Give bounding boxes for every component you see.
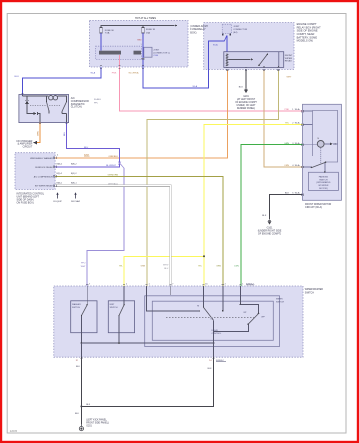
svg-text:JOINT: JOINT	[153, 50, 160, 52]
pin marks multifunction box top	[86, 284, 88, 286]
wire ORN relay to control unit row A	[55, 69, 227, 157]
if-equipped arrows	[56, 192, 76, 198]
svg-text:UNDER, ON LEFT: UNDER, ON LEFT	[236, 105, 256, 107]
fuse box feed line	[101, 25, 175, 27]
ground symbol G101	[268, 221, 271, 224]
svg-text:SWITCH: SWITCH	[110, 307, 118, 309]
mist switch sub-box	[108, 301, 134, 333]
arrow to CD changer circuit	[33, 141, 37, 144]
svg-text:GRN/ORN: GRN/ORN	[108, 175, 119, 177]
svg-text:B(5)-2: B(5)-2	[57, 173, 63, 175]
svg-text:FENDER PANEL): FENDER PANEL)	[237, 107, 255, 110]
wiper switch wiring	[147, 286, 200, 311]
svg-text:7.5A: 7.5A	[105, 32, 110, 35]
svg-text:SWITCH: SWITCH	[305, 292, 314, 294]
relay arrow line	[229, 58, 251, 60]
washer switch sub-box	[71, 301, 97, 333]
svg-text:90-BLU: 90-BLU	[94, 99, 102, 101]
fuse F1	[100, 26, 102, 28]
wire BLK wiper motor to ground G101	[270, 195, 303, 220]
svg-text:BLU: BLU	[84, 147, 89, 149]
svg-text:WHT/BLU: WHT/BLU	[108, 184, 118, 186]
svg-text:B(8)-2: B(8)-2	[57, 164, 63, 166]
svg-text:W/O NAVI: W/O NAVI	[71, 200, 81, 203]
wire BLK park switch loop	[81, 357, 213, 406]
svg-text:WHT: WHT	[287, 77, 293, 79]
washer switch blade	[86, 286, 88, 304]
wire PNK fuse box to wiper motor	[119, 55, 302, 111]
engine compartment relay box	[204, 23, 294, 70]
svg-text:90-A: 90-A	[295, 122, 300, 125]
wire TAN relay to multifunction switch	[147, 69, 278, 286]
svg-text:B(8)-1: B(8)-1	[57, 182, 63, 184]
fuse F2	[142, 26, 144, 28]
wire BLK multifunction switch to ground G201	[80, 357, 82, 424]
junction yellow branch	[203, 255, 205, 257]
svg-text:WINDSHIELD WASHER: WINDSHIELD WASHER	[30, 157, 53, 160]
svg-text:B(8)-2: B(8)-2	[71, 164, 77, 166]
wire YEL branch to mist switch	[124, 256, 204, 286]
wire GRN control unit row C to wiper switch	[55, 176, 223, 286]
A/C clutch interior	[23, 95, 68, 123]
wire ORN clutch box to CD changer arrow	[37, 123, 40, 143]
pin mark clutch box top	[21, 92, 23, 94]
svg-text:BLK: BLK	[75, 413, 80, 415]
svg-text:90-A: 90-A	[295, 142, 300, 145]
svg-text:BLU: BLU	[164, 268, 169, 270]
ground symbol G201 engine	[245, 89, 248, 92]
svg-text:BLK: BLK	[239, 87, 244, 89]
svg-text:B(8)-1: B(8)-1	[71, 182, 77, 184]
svg-text:BLU: BLU	[64, 131, 66, 136]
joint connector sub-box	[222, 24, 231, 33]
svg-text:MIST: MIST	[110, 304, 116, 306]
svg-text:MOTOR): MOTOR)	[319, 188, 328, 190]
svg-text:ORN: ORN	[38, 131, 40, 136]
svg-text:PARKING: PARKING	[319, 176, 329, 179]
svg-text:IF EQUIP: IF EQUIP	[53, 201, 62, 203]
svg-text:CONNECTOR: CONNECTOR	[233, 29, 247, 31]
svg-text:ORN/BLK: ORN/BLK	[108, 156, 118, 158]
svg-text:(INTEGRATED: (INTEGRATED	[316, 181, 330, 184]
svg-text:GRN: GRN	[141, 265, 146, 267]
front wiper motor box	[303, 104, 342, 200]
svg-text:CIRCUIT: CIRCUIT	[23, 146, 33, 149]
wire BLK relay ground stub	[245, 69, 247, 88]
svg-text:BLK: BLK	[285, 193, 290, 195]
joint connector bar 2	[134, 51, 142, 55]
wire BLU inside relay box to joint connector	[208, 41, 224, 69]
svg-text:(CONNECTOR C): (CONNECTOR C)	[153, 52, 170, 54]
svg-text:BLU/WHT: BLU/WHT	[106, 165, 117, 167]
wiper motor park switch	[312, 162, 326, 167]
ground symbol G201	[79, 425, 83, 431]
svg-text:G201: G201	[86, 426, 92, 428]
svg-text:90-A: 90-A	[213, 43, 218, 46]
svg-text:ORN: ORN	[284, 165, 289, 167]
pin marks wiper motor left edge	[300, 110, 302, 112]
svg-text:CONTROL: CONTROL	[212, 333, 223, 335]
svg-text:SWITCH: SWITCH	[319, 179, 328, 181]
svg-text:WIPER: WIPER	[285, 58, 293, 60]
svg-text:CIRCUIT (90-A): CIRCUIT (90-A)	[305, 206, 322, 209]
svg-text:GRN: GRN	[216, 265, 221, 267]
A/C compressor clutch box	[19, 95, 69, 123]
svg-text:B(5)-2: B(5)-2	[71, 173, 77, 175]
svg-text:PNK: PNK	[285, 109, 290, 111]
svg-text:SWITCH: SWITCH	[72, 307, 80, 309]
integrated control unit box	[15, 153, 55, 190]
svg-text:15A: 15A	[146, 32, 150, 35]
pin marks relay box bottom	[226, 66, 228, 68]
svg-text:(E4): (E4)	[233, 32, 237, 34]
svg-text:PNK: PNK	[112, 73, 117, 75]
under-dash fuse/relay box	[90, 20, 189, 67]
wire BLU joint connector to relay coil	[226, 36, 228, 52]
wire ORN relay to wiper motor row 4	[264, 69, 303, 166]
svg-text:FRONT SIDE PANEL): FRONT SIDE PANEL)	[86, 422, 109, 425]
wire BLU clutch box to control unit row B	[55, 123, 120, 167]
relay switch blade	[259, 54, 268, 65]
wire BLU fuse2 to relay box	[143, 55, 208, 88]
fuse box joint connector dashed sub-box	[96, 46, 142, 59]
parking switch sub-box	[308, 172, 338, 190]
wiper motor interior	[303, 111, 331, 164]
svg-text:BLK: BLK	[208, 368, 213, 370]
svg-text:JOINT: JOINT	[233, 26, 240, 28]
svg-text:22005: 22005	[10, 429, 18, 433]
svg-text:C544: C544	[153, 55, 159, 57]
wire BLU fuse1 to A/C clutch box	[23, 67, 102, 95]
svg-text:CLUTCH): CLUTCH)	[71, 106, 82, 109]
svg-text:RED: RED	[137, 40, 142, 42]
svg-text:MODELS ON): MODELS ON)	[297, 39, 314, 43]
svg-text:RELAY: RELAY	[285, 60, 293, 63]
svg-text:FUSE 18: FUSE 18	[146, 29, 156, 31]
wiper switch outer sub-box	[145, 296, 280, 347]
svg-text:OF ENGINE COMPT): OF ENGINE COMPT)	[258, 232, 281, 235]
svg-text:BLK: BLK	[262, 215, 267, 217]
mist switch blade	[123, 286, 125, 304]
wire GRN wiper motor to multifunction switch	[241, 145, 303, 286]
wiper switch inner sub-box	[152, 301, 273, 340]
pin marks clutch box bottom	[39, 123, 41, 125]
joint connector bar 1	[99, 51, 121, 55]
wire WHT control unit row D to wiper switch	[55, 186, 171, 286]
svg-text:90-A: 90-A	[91, 72, 96, 75]
svg-text:(LEFT KICK PANEL,: (LEFT KICK PANEL,	[86, 419, 107, 422]
svg-text:LGN: LGN	[234, 265, 239, 267]
front wiper relay sub-box	[224, 52, 284, 68]
svg-text:(AT LEFT FRONT: (AT LEFT FRONT	[237, 98, 256, 101]
svg-text:S2003-2: S2003-2	[246, 283, 254, 285]
pin marks joint connector	[222, 34, 223, 35]
svg-text:WIPER: WIPER	[276, 299, 283, 301]
white wire pin into box	[170, 286, 172, 296]
svg-text:W/ WIPER: W/ WIPER	[318, 185, 328, 187]
svg-text:90-A: 90-A	[295, 164, 300, 167]
svg-text:WHT: WHT	[81, 266, 86, 268]
wire PPL splice branch to washer switch	[120, 164, 124, 169]
wiper/washer multifunction switch box	[54, 286, 303, 357]
splice mark	[118, 162, 121, 165]
pin marks control unit right edge	[53, 157, 55, 159]
svg-text:WIPER/WASHER: WIPER/WASHER	[305, 288, 324, 291]
svg-text:BOX): BOX)	[190, 31, 196, 34]
svg-text:GRN: GRN	[284, 143, 289, 145]
svg-text:G201: G201	[243, 96, 249, 98]
wire YEL wiper motor to multifunction switch	[204, 125, 303, 286]
svg-text:PPL/: PPL/	[81, 263, 86, 265]
wiper motor inner rect	[313, 111, 338, 163]
svg-text:BLK: BLK	[86, 404, 91, 406]
svg-text:90-ORN A: 90-ORN A	[129, 72, 140, 75]
ground bus	[81, 342, 213, 344]
svg-text:ON FUSE BOX): ON FUSE BOX)	[17, 201, 34, 204]
svg-text:DELAY: DELAY	[212, 329, 219, 332]
svg-text:SWITCH: SWITCH	[276, 302, 284, 304]
svg-text:HOT AT ALL TIMES: HOT AT ALL TIMES	[135, 17, 156, 20]
svg-text:INT WIPER RELAY: INT WIPER RELAY	[35, 185, 54, 188]
junction BLK	[80, 405, 82, 407]
svg-text:WASHER: WASHER	[72, 303, 81, 306]
pin marks fuse box bottom	[100, 65, 102, 67]
pin marks multifunction box bottom	[80, 357, 82, 359]
svg-text:90-A: 90-A	[193, 85, 198, 88]
multifunction switch interior	[81, 286, 260, 357]
svg-text:WHT/: WHT/	[163, 265, 169, 267]
svg-text:BLU: BLU	[15, 76, 20, 78]
svg-text:FRONT: FRONT	[285, 55, 293, 57]
svg-text:A/C COMPRESSOR: A/C COMPRESSOR	[34, 175, 54, 178]
svg-text:90-A: 90-A	[295, 192, 300, 195]
relay coil hatch	[226, 54, 229, 67]
svg-text:SUNROOF RELAY: SUNROOF RELAY	[35, 166, 53, 169]
svg-text:OF ENGINE COMPT: OF ENGINE COMPT	[235, 102, 257, 104]
connector mark on fuse2 wire	[142, 58, 144, 60]
svg-text:90-A: 90-A	[295, 108, 300, 111]
svg-text:FUSE 30: FUSE 30	[105, 30, 115, 32]
joint connector C544 box	[144, 47, 152, 57]
svg-text:BLK: BLK	[76, 366, 81, 368]
